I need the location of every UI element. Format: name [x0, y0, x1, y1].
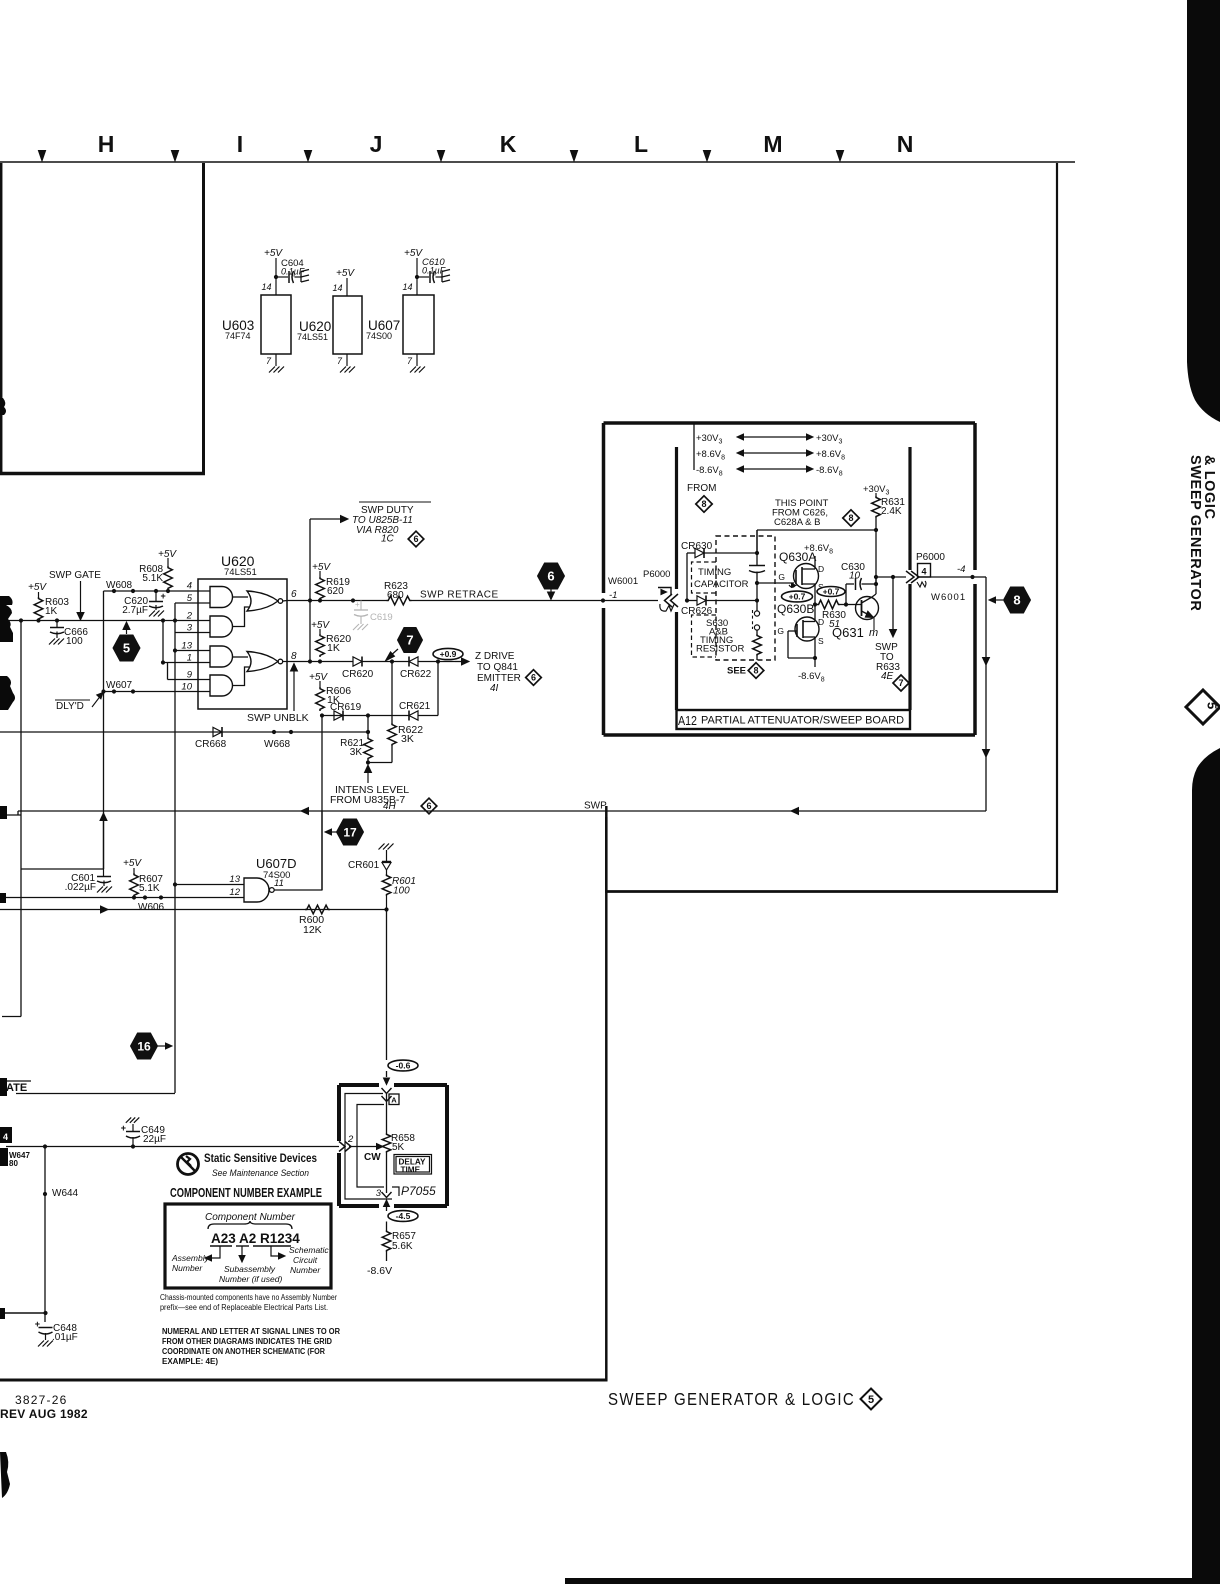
diode CR668: [213, 727, 222, 736]
resistor R623 680 (horizontal): [387, 596, 412, 605]
svg-text:1K: 1K: [327, 642, 340, 654]
resistor R621 3K: [367, 716, 369, 738]
IC U620 74LS51 gate block box: [198, 579, 287, 709]
svg-text:Schematic: Schematic: [289, 1245, 329, 1255]
svg-text:100: 100: [393, 886, 410, 897]
arrowhead left on SWP wire (right): [791, 808, 799, 815]
svg-text:A: A: [391, 1096, 397, 1105]
svg-text:+5V: +5V: [404, 248, 423, 259]
svg-text:W606: W606: [138, 902, 165, 913]
svg-text:5: 5: [123, 641, 130, 656]
node at U607 pin 14: [415, 275, 419, 279]
svg-text:74F74: 74F74: [225, 331, 251, 341]
structure: bottom border line: [0, 1379, 608, 1382]
page frame: top grid line: [0, 161, 1075, 163]
P7055 inner thin outline: [345, 1094, 392, 1200]
resistor R657 5.6K: [386, 1222, 388, 1231]
svg-text:74S00: 74S00: [366, 331, 392, 341]
R658 to pin 3: [386, 1153, 388, 1193]
wire P6000-4 to edge: [919, 576, 975, 578]
hexagon 16: [131, 1033, 158, 1059]
svg-text:SWP: SWP: [584, 801, 607, 812]
arrow hexagon 8 to wire: [995, 599, 1003, 601]
svg-text:REV AUG 1982: REV AUG 1982: [0, 1407, 88, 1421]
ground for C610: [436, 276, 443, 278]
svg-text:COORDINATE ON ANOTHER SCHEMATI: COORDINATE ON ANOTHER SCHEMATIC (FOR: [162, 1347, 325, 1356]
wire CR620 to CR622: [362, 661, 409, 663]
svg-text:-8.6V: -8.6V: [367, 1265, 392, 1277]
arrowhead left on SWP wire (left): [301, 808, 309, 815]
wire pin1 from SWP GATE: [162, 621, 164, 663]
wire SWP RETRACE from U620 pin 6: [283, 600, 287, 603]
hexagon 17: [337, 819, 364, 845]
svg-text:8: 8: [701, 499, 706, 509]
svg-text:PARTIAL ATTENUATOR/SWEEP BOARD: PARTIAL ATTENUATOR/SWEEP BOARD: [701, 715, 904, 727]
A12 outer box: [604, 421, 976, 425]
svg-text:Q631: Q631: [832, 625, 864, 640]
svg-text:D: D: [818, 564, 824, 574]
svg-text:+0.7: +0.7: [823, 587, 840, 597]
subassembly arrow: [241, 1246, 243, 1256]
diode CR620: [353, 657, 362, 666]
wire R600 row: [0, 909, 387, 911]
svg-text:COMPONENT NUMBER EXAMPLE: COMPONENT NUMBER EXAMPLE: [170, 1186, 322, 1200]
wire pin3/pin13 vertical: [175, 632, 210, 634]
svg-text:74LS51: 74LS51: [224, 567, 257, 578]
wire C626 line: [875, 518, 877, 530]
svg-text:6: 6: [547, 569, 554, 584]
svg-text:S: S: [818, 636, 824, 646]
svg-text:Assembly: Assembly: [171, 1253, 210, 1263]
svg-text:CR668: CR668: [195, 739, 227, 750]
resistor R600 12K: [305, 905, 330, 914]
wire timing cap to Q630A gate: [757, 582, 794, 584]
arrowhead into pot: [384, 1078, 390, 1085]
svg-text:+5V: +5V: [336, 268, 355, 279]
right margin black bar top: [1187, 0, 1220, 422]
svg-text:+5V: +5V: [123, 858, 142, 869]
capacitor C601 .022uF: [21, 868, 104, 870]
A12 inner board right edge: [908, 447, 911, 570]
svg-text:CR620: CR620: [342, 669, 374, 680]
structure: right tall vertical line: [1056, 163, 1058, 891]
wire pin9 branch: [167, 663, 169, 680]
svg-text:8: 8: [291, 651, 297, 662]
svg-text:CR626: CR626: [681, 606, 713, 617]
wire from P6000-4 out of box and down: [975, 576, 986, 578]
svg-text:+: +: [355, 600, 360, 609]
svg-text:16: 16: [137, 1039, 151, 1053]
svg-text:Q630B: Q630B: [777, 602, 814, 616]
wire W608 (pin 4): [104, 590, 211, 592]
arrow up into pin 3 from below: [384, 1200, 390, 1207]
A12 board label box: [677, 710, 911, 729]
svg-text:Number: Number: [172, 1263, 203, 1273]
timing capacitor dashed box: [716, 536, 775, 660]
svg-text:3: 3: [376, 1188, 382, 1199]
capacitor C666 100: [56, 621, 58, 628]
long vertical wire (x175) down to +GATE corner: [174, 603, 176, 1093]
component number example box: [165, 1204, 331, 1288]
svg-text:3K: 3K: [401, 733, 414, 745]
timing capacitor label dashed bracket: [692, 562, 717, 593]
svg-text:CR622: CR622: [400, 669, 432, 680]
svg-text:5.1K: 5.1K: [142, 573, 163, 584]
svg-text:M: M: [763, 131, 782, 157]
arrow hexagon 5 to SWP GATE wire: [126, 627, 128, 634]
svg-text:G: G: [778, 572, 785, 582]
svg-text:13: 13: [229, 874, 240, 885]
arrowhead right on R600 row: [101, 906, 109, 913]
svg-text:N: N: [897, 131, 914, 157]
svg-text:2.4K: 2.4K: [881, 506, 902, 517]
svg-text:SWP GATE: SWP GATE: [49, 570, 101, 581]
wire to delay-time pot (y1146.5): [6, 1146, 339, 1148]
wire SWP GATE (pin 2): [0, 620, 210, 622]
svg-text:Chassis-mounted components hav: Chassis-mounted components have no Assem…: [160, 1293, 337, 1302]
wire gate B to NOR1: [233, 607, 250, 627]
svg-text:5K: 5K: [392, 1142, 405, 1153]
svg-text:-0.6: -0.6: [396, 1061, 411, 1071]
svg-text:-4.5: -4.5: [396, 1211, 411, 1221]
wire CR619 row (y=715.5): [320, 715, 409, 717]
svg-text:-1: -1: [609, 590, 617, 601]
node Q630A source / Q630B drain / R630: [813, 602, 817, 606]
svg-text:TIMING: TIMING: [698, 567, 731, 578]
svg-text:SWP UNBLK: SWP UNBLK: [247, 712, 309, 724]
wire gate A to NOR1: [233, 596, 248, 598]
svg-text:C619: C619: [370, 612, 393, 623]
S630 switch contacts: [756, 601, 758, 612]
svg-text:+8.6V8: +8.6V8: [816, 449, 845, 462]
oval readout +0.7 (Q630A source): [817, 587, 845, 597]
svg-text:L: L: [634, 131, 648, 157]
svg-text:4E: 4E: [881, 671, 894, 682]
svg-text:ATE: ATE: [6, 1082, 27, 1094]
svg-text:+0.7: +0.7: [789, 592, 806, 602]
svg-text:680: 680: [387, 590, 404, 601]
IC U607 74S00: [403, 295, 434, 354]
oval readout -0.6: [388, 1060, 418, 1071]
ground for C604: [295, 276, 302, 278]
svg-text:W608: W608: [106, 580, 133, 591]
svg-text:W644: W644: [52, 1188, 79, 1199]
svg-text:P7055: P7055: [401, 1184, 436, 1198]
wire CR626 node vertical: [686, 553, 688, 601]
title diamond 5: [861, 1389, 882, 1410]
svg-text:4: 4: [187, 581, 192, 592]
svg-text:22µF: 22µF: [143, 1134, 166, 1145]
svg-text:FROM OTHER DIAGRAMS INDICATES: FROM OTHER DIAGRAMS INDICATES THE GRID: [162, 1337, 332, 1346]
svg-text:CAPACITOR: CAPACITOR: [694, 579, 749, 590]
arrow hexagon 7 to wire: [389, 649, 398, 657]
wire R623 to A12 board: [412, 600, 659, 602]
svg-text:7: 7: [406, 633, 413, 648]
brace over example: [208, 1221, 292, 1229]
wire gate C to NOR2: [233, 656, 248, 658]
arrow Z DRIVE: [455, 661, 462, 663]
arrow up at x103 touching SWP wire: [103, 820, 105, 869]
svg-text:J: J: [370, 131, 383, 157]
capacitor C649 22uF: [126, 1117, 131, 1122]
svg-text:17: 17: [343, 825, 357, 839]
svg-text:SEE: SEE: [727, 666, 746, 677]
svg-text:& LOGIC: & LOGIC: [1201, 455, 1217, 520]
vertical x322 (CR619 node down): [321, 716, 323, 891]
SWP long wire to the left: [18, 810, 986, 812]
schematic circuit arrow: [271, 1246, 279, 1256]
IC U620 74LS51 (top block): [333, 296, 362, 354]
svg-text:CR621: CR621: [399, 701, 431, 712]
svg-text:4: 4: [3, 1132, 8, 1142]
SWP to R633 arrow: [892, 577, 894, 630]
P7055 delay pot outer box: [339, 1083, 379, 1087]
svg-text:CR619: CR619: [330, 702, 362, 713]
bottom black strip: [565, 1578, 1220, 1584]
arrow hexagon 17 to vertical wire: [331, 831, 337, 833]
IC U603 74F74: [261, 295, 291, 354]
vertical feed to delay pot: [386, 910, 388, 1061]
left margin cut wire stubs: [0, 596, 13, 642]
svg-text:12: 12: [229, 887, 240, 898]
svg-text:.022µF: .022µF: [65, 882, 96, 893]
svg-text:Number (if used): Number (if used): [219, 1274, 282, 1284]
wire W606 to U607D pin 12: [0, 897, 244, 899]
svg-text:6: 6: [426, 801, 431, 811]
svg-text:Z DRIVE: Z DRIVE: [475, 651, 515, 662]
svg-text:14: 14: [332, 283, 342, 293]
diamond 6 (Z drive): [526, 670, 542, 686]
svg-text:W668: W668: [264, 739, 291, 750]
svg-text:12K: 12K: [303, 924, 322, 936]
SWP DUTY text block: [359, 501, 431, 503]
svg-text:5.1K: 5.1K: [139, 883, 160, 894]
oval readout -4.5: [388, 1211, 418, 1222]
capacitor C620 2.7uF: [155, 591, 157, 601]
svg-text:CR630: CR630: [681, 541, 713, 552]
svg-text:A23 A2 R1234: A23 A2 R1234: [211, 1231, 300, 1246]
NOR gate U620 output 8: [247, 652, 278, 672]
diode CR621: [409, 711, 418, 720]
svg-text:-8.6V8: -8.6V8: [696, 465, 723, 478]
capacitor C610: [417, 276, 429, 278]
svg-text:-4: -4: [957, 564, 965, 575]
diode CR619: [334, 711, 343, 720]
svg-text:1C: 1C: [381, 534, 395, 545]
diamond 6 (INTENS LEVEL): [421, 798, 437, 814]
wire CR622 to takeoff: [418, 661, 455, 663]
structure: left paper edge: [0, 163, 2, 474]
wire gate D to NOR2: [233, 667, 250, 686]
svg-text:C628A & B: C628A & B: [774, 517, 820, 528]
svg-text:TIME: TIME: [401, 1166, 421, 1175]
svg-text:8: 8: [848, 513, 853, 523]
svg-text:prefix—see end of Replaceable: prefix—see end of Replaceable Electrical…: [160, 1303, 328, 1312]
svg-text:G: G: [777, 626, 784, 636]
svg-text:3827-26: 3827-26: [15, 1393, 67, 1407]
svg-text:6: 6: [531, 673, 536, 683]
svg-text:+: +: [161, 591, 166, 601]
structure: lower-left tall vertical: [605, 806, 608, 891]
feed into R658: [386, 1094, 388, 1134]
svg-text:+0.9: +0.9: [440, 649, 457, 659]
arrowhead down on SWP return (upper): [983, 658, 990, 666]
diode CR622: [409, 657, 418, 666]
AND gate U620B: [210, 616, 233, 637]
diamond 6 (SWP DUTY): [408, 531, 424, 547]
DELAY TIME boxed label: [394, 1155, 432, 1175]
svg-text:I: I: [237, 131, 243, 157]
W644 wire down: [44, 1147, 46, 1323]
svg-text:W6001: W6001: [931, 592, 966, 603]
svg-text:NUMERAL AND LETTER AT SIGNAL L: NUMERAL AND LETTER AT SIGNAL LINES TO OR: [162, 1327, 340, 1336]
NOR gate U620 output 6: [247, 591, 278, 611]
+GATE corner wire: [16, 1093, 175, 1095]
capacitor C604: [276, 276, 288, 278]
svg-text:4I: 4I: [490, 683, 499, 694]
long vertical wire left (x103): [103, 591, 105, 869]
A12 inner board left edge: [675, 447, 678, 589]
svg-text:14: 14: [261, 282, 271, 292]
grid tick marks: [38, 151, 45, 162]
potentiometer R658 5K: [382, 1133, 391, 1153]
resistor R601 100: [382, 874, 391, 896]
svg-text:+5V: +5V: [312, 562, 331, 573]
hexagon 6 (SWP RETRACE): [538, 563, 565, 589]
svg-text:.01µF: .01µF: [52, 1332, 78, 1343]
svg-text:P6000: P6000: [916, 552, 945, 563]
svg-text:3K: 3K: [350, 747, 363, 758]
SWP DUTY takeoff arrow: [310, 518, 341, 520]
svg-text:6: 6: [413, 534, 418, 544]
svg-text:80: 80: [9, 1159, 18, 1168]
pin A chevron and box: [382, 1088, 392, 1094]
vertical R631 node down to output line: [875, 530, 877, 584]
wire U620 pin5 to pin2 junction (vertical): [175, 602, 210, 604]
svg-text:CW: CW: [364, 1152, 381, 1163]
wire U620 pin 8 row: [283, 661, 287, 663]
svg-text:CR601: CR601: [348, 860, 380, 871]
diamond 8 (this point): [843, 510, 859, 526]
svg-text:5: 5: [868, 1394, 874, 1406]
svg-text:A12: A12: [678, 714, 697, 728]
svg-text:6: 6: [291, 589, 297, 600]
P7055 inner loop: [357, 1105, 384, 1188]
svg-text:+5V: +5V: [28, 582, 47, 593]
svg-text:W607: W607: [106, 680, 133, 691]
vertical wire x21 from SWP GATE down: [20, 621, 22, 1017]
timing capacitor symbol: [756, 530, 758, 565]
wire U607D output to SWP: [274, 889, 322, 891]
svg-text:SWEEP GENERATOR: SWEEP GENERATOR: [1187, 455, 1203, 611]
left margin stub labels (cut): [0, 1127, 12, 1143]
svg-text:2.7µF: 2.7µF: [122, 605, 148, 616]
transistor Q631: [856, 597, 879, 620]
svg-text:+5V: +5V: [309, 672, 328, 683]
power rail bracket: [693, 425, 695, 471]
svg-text:1K: 1K: [45, 606, 58, 617]
structure: step horizontal line: [605, 890, 1058, 893]
hexagon 5: [113, 635, 140, 661]
svg-text:+5V: +5V: [311, 620, 330, 631]
svg-text:+: +: [121, 1123, 126, 1133]
svg-text:FROM: FROM: [687, 483, 716, 494]
svg-text:8: 8: [1013, 593, 1020, 608]
structure: left box vertical line: [202, 163, 205, 474]
hexagon 7: [398, 628, 423, 653]
wire CR668 row (y=732): [0, 731, 368, 733]
main output node and wire to P6000-4: [875, 577, 877, 584]
arrow hexagon 6 to wire: [550, 589, 552, 594]
svg-text:100: 100: [66, 636, 83, 647]
svg-text:See Maintenance Section: See Maintenance Section: [212, 1168, 309, 1179]
S630 label dashed bracket: [692, 615, 717, 657]
diamond 7 (SWP to R633): [893, 675, 909, 691]
svg-text:Static Sensitive Devices: Static Sensitive Devices: [204, 1151, 317, 1165]
oval readout +0.9: [433, 648, 463, 659]
wire W607 (pin 10): [104, 691, 211, 693]
svg-text:H: H: [98, 131, 115, 157]
AND gate U620A: [210, 587, 233, 608]
AND gate U620D: [210, 675, 233, 696]
oval readout +0.7 (Q630A gate): [782, 591, 813, 602]
svg-text:11: 11: [274, 878, 284, 889]
svg-text:DLY'D: DLY'D: [56, 701, 84, 712]
R658 wiper: [349, 1146, 377, 1148]
svg-text:5.6K: 5.6K: [392, 1241, 413, 1252]
svg-text:74LS51: 74LS51: [297, 332, 328, 342]
AND gate U620C: [210, 646, 233, 667]
svg-text:U607D: U607D: [256, 856, 296, 871]
svg-text:8: 8: [753, 666, 758, 676]
assembly number arrow: [210, 1246, 220, 1258]
svg-text:SWP RETRACE: SWP RETRACE: [420, 590, 499, 601]
right margin black bar bottom: [1192, 748, 1220, 1584]
svg-text:SWEEP GENERATOR & LOGIC: SWEEP GENERATOR & LOGIC: [608, 1389, 855, 1409]
svg-text:620: 620: [327, 586, 344, 597]
hexagon 8: [1004, 587, 1031, 613]
svg-text:+8.6V8: +8.6V8: [696, 449, 725, 462]
arrowhead down on SWP return (lower): [983, 750, 990, 758]
svg-text:Number: Number: [290, 1265, 321, 1275]
INTENS LEVEL arrow: [367, 771, 369, 783]
svg-text:-8.6V8: -8.6V8: [798, 671, 825, 684]
structure: left box bottom line: [0, 472, 205, 476]
svg-text:7: 7: [898, 678, 903, 688]
ghost capacitor C619 (faded): [360, 601, 362, 611]
svg-text:RESISTOR: RESISTOR: [696, 644, 745, 655]
wire CR621 up to Z-drive row: [418, 715, 438, 717]
svg-text:5: 5: [1205, 702, 1220, 709]
svg-text:K: K: [500, 131, 517, 157]
svg-text:EMITTER: EMITTER: [477, 673, 521, 684]
svg-text:-8.6V8: -8.6V8: [816, 465, 843, 478]
capacitor C648: [0, 1312, 46, 1314]
S630 timing resistor: [756, 630, 758, 634]
arrow hexagon 16 to vertical wire: [158, 1045, 167, 1047]
resistor R630 51: [817, 600, 840, 609]
node at U603 pin 14: [274, 275, 278, 279]
corner of SWP wire at far left: [17, 811, 19, 815]
svg-text:W6001: W6001: [608, 576, 638, 587]
svg-text:EXAMPLE: 4E): EXAMPLE: 4E): [162, 1357, 218, 1366]
vertical wire x310 SWP DUTY to pin8 row: [309, 519, 311, 662]
svg-text:+8.6V8: +8.6V8: [804, 543, 833, 556]
svg-text:4: 4: [921, 567, 926, 577]
svg-text:Subassembly: Subassembly: [224, 1264, 276, 1274]
node R600/R601/pot feed: [384, 907, 388, 911]
svg-text:P6000: P6000: [643, 569, 670, 580]
